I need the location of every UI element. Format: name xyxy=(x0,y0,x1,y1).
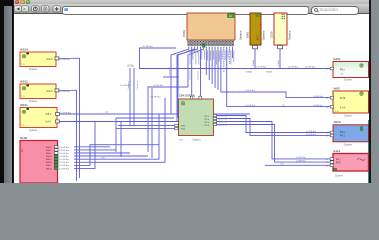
svg-text:W65: W65 xyxy=(334,87,341,91)
wire to W65 pin2 xyxy=(227,47,331,107)
svg-text:System: System xyxy=(29,68,37,71)
svg-text:1.7c: 1.7c xyxy=(21,125,25,127)
D102 wire 5 corner up xyxy=(74,114,159,159)
svg-text:C-terminal: C-terminal xyxy=(218,118,227,121)
connector C081 xyxy=(182,13,243,40)
svg-text:M.A.8: M.A.8 xyxy=(46,167,52,170)
titlebar xyxy=(14,0,369,4)
svg-text:(2) HF Bat: (2) HF Bat xyxy=(288,66,298,69)
svg-text:J.6 HF Bat: J.6 HF Bat xyxy=(59,164,69,167)
wire C84 rp3 to E114 pin1 xyxy=(217,122,331,159)
svg-text:A.B 2: A.B 2 xyxy=(46,113,52,116)
svg-text:5.A.6: 5.A.6 xyxy=(46,121,52,124)
wire Z030 down xyxy=(279,49,281,69)
svg-text:J.6 HF Bat: J.6 HF Bat xyxy=(59,158,69,161)
svg-text:B001: B001 xyxy=(246,31,250,38)
svg-text:K08A4: K08A4 xyxy=(252,59,255,66)
svg-text:System: System xyxy=(344,115,352,118)
svg-text:M.A.1: M.A.1 xyxy=(46,146,52,149)
svg-text:M.A.2: M.A.2 xyxy=(46,149,52,152)
svg-text:E114: E114 xyxy=(334,149,341,153)
svg-text:System: System xyxy=(239,30,243,40)
S020 pin 2 xyxy=(330,134,333,137)
E114 pin 1 xyxy=(330,158,333,161)
svg-text:J.6 HF Bat: J.6 HF Bat xyxy=(153,84,163,87)
D102 wire 7 corner up xyxy=(74,145,159,166)
window body xyxy=(13,0,370,183)
toolbar xyxy=(14,4,369,14)
svg-text:1.7c: 1.7c xyxy=(335,111,339,113)
svg-text:M.A.5: M.A.5 xyxy=(46,158,52,161)
svg-text:(2) HF Bat: (2) HF Bat xyxy=(305,66,315,69)
svg-text:P4.1: P4.1 xyxy=(340,136,345,138)
wire W104 xyxy=(58,57,72,59)
D102 wire 4 xyxy=(74,155,148,157)
traffic light yellow xyxy=(20,0,25,4)
svg-text:S.A01: S.A01 xyxy=(277,59,280,66)
svg-text:(2): (2) xyxy=(282,105,285,107)
svg-text:P4.2: P4.2 xyxy=(340,132,345,134)
svg-text:(2) HF Bat: (2) HF Bat xyxy=(296,156,306,159)
gray vertical bar on left xyxy=(4,6,12,183)
svg-text:D102: D102 xyxy=(20,136,28,140)
component Z030 xyxy=(270,13,292,45)
svg-text:J.6 HF Bat: J.6 HF Bat xyxy=(59,146,69,149)
svg-text:UC09x: UC09x xyxy=(127,65,135,67)
svg-text:J.6 HF Bat: J.6 HF Bat xyxy=(245,89,255,92)
svg-text:C-terminal: C-terminal xyxy=(218,115,227,118)
switch S020 xyxy=(333,120,369,146)
svg-text:S020: S020 xyxy=(334,120,341,124)
S020 pin 1 xyxy=(330,131,333,134)
svg-text:C081: C081 xyxy=(182,29,186,37)
W101 pin 2 xyxy=(56,120,60,123)
UC09x wires xyxy=(129,68,131,126)
svg-text:M.A.3: M.A.3 xyxy=(46,152,52,155)
svg-text:M.A.6: M.A.6 xyxy=(47,90,54,93)
svg-text:M.A.4: M.A.4 xyxy=(46,155,52,158)
display unit C84 DISP xyxy=(179,93,214,141)
C84 top pin 1 xyxy=(190,96,193,99)
svg-text:LT2 HF Bat: LT2 HF Bat xyxy=(142,45,153,48)
wire LT2 upper xyxy=(140,48,177,69)
svg-text:K08A4: K08A4 xyxy=(246,71,253,74)
svg-text:C-terminal: C-terminal xyxy=(136,81,139,90)
svg-text:J.6 HF Bat: J.6 HF Bat xyxy=(256,66,267,69)
svg-text:C-terminal: C-terminal xyxy=(218,121,227,124)
svg-text:System: System xyxy=(344,79,352,82)
relay W102 xyxy=(20,80,56,104)
svg-text:P2.4: P2.4 xyxy=(205,119,210,121)
control unit D102 xyxy=(20,136,58,183)
search placeholder text xyxy=(320,7,339,12)
wire C84 rp2 to S020 pin2 xyxy=(217,119,331,136)
search field xyxy=(311,6,359,15)
wire W102 xyxy=(58,89,72,91)
svg-text:J.6 HF Bat: J.6 HF Bat xyxy=(306,133,316,136)
svg-text:(2) HF Bat: (2) HF Bat xyxy=(313,104,323,107)
svg-text:J.6 HF Bat: J.6 HF Bat xyxy=(59,167,69,170)
E114 pin 3 xyxy=(330,164,333,167)
C84 top pin 2 xyxy=(199,96,202,99)
right window edge dark line xyxy=(369,0,371,183)
svg-text:System: System xyxy=(288,30,292,40)
C081 pin drop wires xyxy=(171,47,233,122)
svg-text:C-terminal: C-terminal xyxy=(197,71,200,80)
schematic svg layer xyxy=(0,0,379,183)
svg-text:J.6 HF Bat: J.6 HF Bat xyxy=(59,155,69,158)
teal scrollbar sliver bottom right xyxy=(368,120,370,183)
svg-text:C-terminal: C-terminal xyxy=(189,71,192,80)
E114 pin 2 xyxy=(330,161,333,164)
svg-text:(2) HF Bat: (2) HF Bat xyxy=(296,159,306,162)
field divider xyxy=(308,6,309,12)
svg-text:System: System xyxy=(262,30,266,40)
relay W104 xyxy=(20,48,56,72)
svg-text:J.6 HF Bat: J.6 HF Bat xyxy=(59,161,69,164)
lamp E101 xyxy=(333,57,369,81)
relay W101 xyxy=(20,103,57,132)
svg-text:System: System xyxy=(29,100,37,103)
wire W101 pin2 xyxy=(59,121,244,123)
C081 under-pin labels xyxy=(189,48,230,53)
C081 drop-wire name labels xyxy=(190,51,235,65)
D102 wire 8 jog xyxy=(74,122,95,169)
wire W101 pin1 xyxy=(59,113,250,115)
svg-text:C84: C84 xyxy=(179,140,184,142)
svg-text:P2.1: P2.1 xyxy=(205,116,210,118)
svg-text:System: System xyxy=(193,139,201,142)
D102 wire 2 xyxy=(74,149,116,151)
svg-text:P2.4: P2.4 xyxy=(205,125,210,127)
svg-text:P4.7: P4.7 xyxy=(336,160,341,162)
traffic light red xyxy=(15,0,20,4)
address field xyxy=(62,6,309,15)
D102 inner pin labels xyxy=(46,146,52,170)
wire to E101 xyxy=(139,68,330,70)
svg-text:5.A.6: 5.A.6 xyxy=(340,107,346,110)
svg-text:P2.4: P2.4 xyxy=(205,122,210,124)
W102 right pin xyxy=(55,89,59,92)
W104 right pin xyxy=(55,57,59,60)
svg-text:Z030: Z030 xyxy=(270,31,274,38)
svg-text:J.6 HF Bat: J.6 HF Bat xyxy=(59,152,69,155)
svg-text:M.A.6: M.A.6 xyxy=(46,161,52,164)
Z030 bottom pin xyxy=(278,45,283,48)
traffic light green xyxy=(26,0,31,4)
C081 pin row xyxy=(188,40,234,47)
svg-text:J.6 HF9a4: J.6 HF9a4 xyxy=(120,85,130,87)
magnifier icon xyxy=(314,8,318,12)
svg-text:1.7c: 1.7c xyxy=(21,64,25,66)
svg-text:J.6 HF Bat: J.6 HF Bat xyxy=(245,104,255,107)
D102 wire 6 xyxy=(74,98,165,162)
svg-text:E101: E101 xyxy=(334,57,341,61)
wire to E114 pin3 xyxy=(265,164,330,166)
C84 right pins xyxy=(205,114,228,127)
svg-text:K08A4: K08A4 xyxy=(266,71,273,74)
svg-text:J.6 HF Bat: J.6 HF Bat xyxy=(59,149,69,152)
favicon blue sphere xyxy=(64,8,68,12)
svg-text:J.6 HF Bat: J.6 HF Bat xyxy=(306,130,316,133)
svg-text:C-terminal: C-terminal xyxy=(218,124,227,127)
D102 pins xyxy=(54,146,69,171)
mid corner wires xyxy=(115,118,117,152)
D102 wire 3 xyxy=(74,152,130,154)
svg-text:System: System xyxy=(335,174,343,177)
W65 pin 2 xyxy=(330,105,333,108)
svg-text:M.10: M.10 xyxy=(340,98,346,100)
svg-text:W102: W102 xyxy=(20,80,28,84)
relay W65 xyxy=(333,87,369,118)
wire B001 down xyxy=(254,49,256,69)
W101 pin 1 xyxy=(56,113,60,116)
desktop left black strip xyxy=(0,0,13,183)
E101 pin xyxy=(330,67,333,70)
C84 left pins xyxy=(175,124,186,131)
svg-text:C-terminal: C-terminal xyxy=(168,67,171,76)
wire C84 rp1 to S020 pin1 xyxy=(217,116,331,133)
svg-text:System: System xyxy=(344,143,352,146)
node UC09A wires xyxy=(147,88,149,152)
W65 pin 1 xyxy=(330,96,333,99)
svg-text:(2) HF Bat: (2) HF Bat xyxy=(313,95,323,98)
B001 bottom pin xyxy=(253,45,258,48)
svg-text:M.A.6: M.A.6 xyxy=(47,58,54,61)
svg-text:System: System xyxy=(29,129,37,132)
C081 pin digits xyxy=(188,41,233,45)
wire to W65 pin1 xyxy=(221,47,330,98)
svg-text:1.7c: 1.7c xyxy=(21,96,25,98)
svg-text:P4.2: P4.2 xyxy=(336,163,341,165)
wire C84 rp4 to E114 pin2 xyxy=(217,125,331,163)
D102 wire 1 xyxy=(74,146,110,148)
lamp E114 xyxy=(333,149,369,178)
component B001 xyxy=(246,13,266,45)
svg-text:W104: W104 xyxy=(20,48,28,52)
svg-text:W101: W101 xyxy=(20,103,28,107)
svg-text:M.A.7: M.A.7 xyxy=(46,164,52,167)
pin arrows right boxes xyxy=(326,67,328,168)
svg-text:M.4.1: M.4.1 xyxy=(258,34,260,40)
toolbar buttons xyxy=(13,5,63,13)
